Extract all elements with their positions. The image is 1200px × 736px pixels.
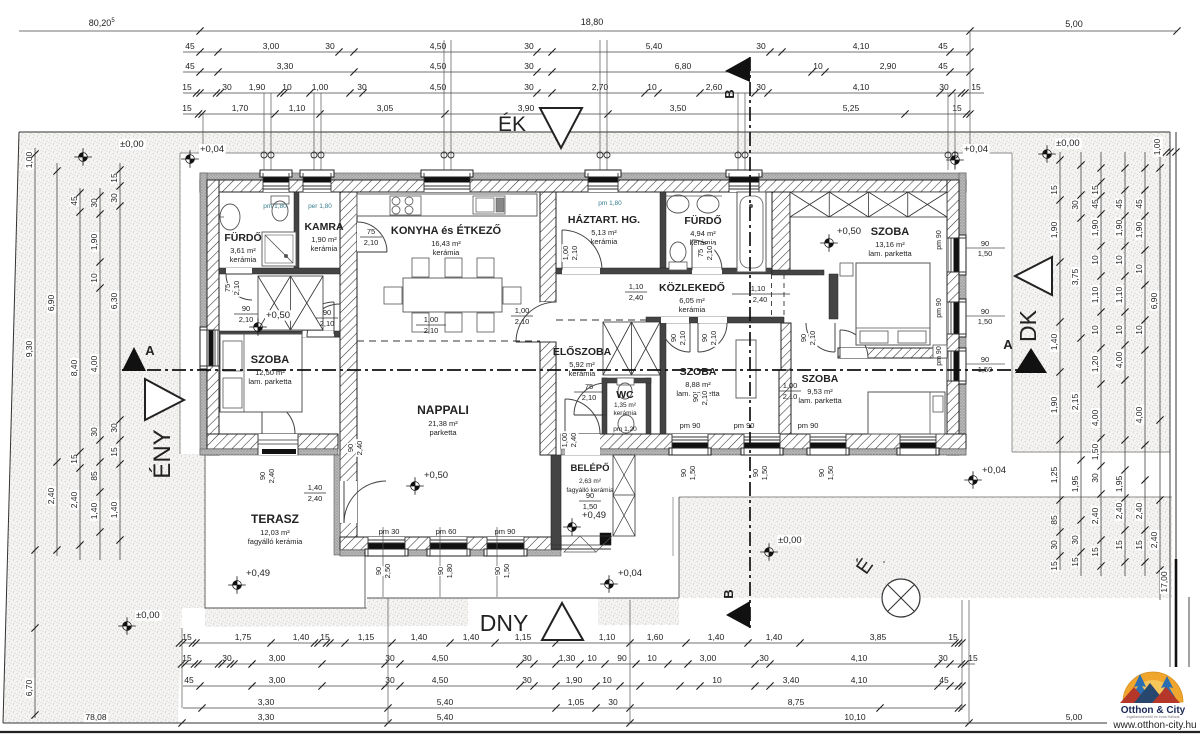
svg-text:1,90: 1,90 [1134, 221, 1144, 238]
right dimension line x=1101 [1100, 152, 1102, 576]
site boundary left (slanted) [3, 132, 19, 723]
svg-text:4,00: 4,00 [89, 355, 99, 372]
svg-text:1,00: 1,00 [24, 151, 34, 168]
svg-text:3,61 m²: 3,61 m² [230, 246, 256, 255]
svg-text:3,30: 3,30 [277, 61, 294, 71]
svg-text:pm 90: pm 90 [734, 421, 755, 430]
stove [390, 196, 421, 215]
svg-text:2,40: 2,40 [1134, 502, 1144, 519]
svg-text:+0,50: +0,50 [424, 470, 448, 481]
svg-text:1,90: 1,90 [1049, 221, 1059, 238]
svg-text:8,75: 8,75 [788, 697, 805, 707]
svg-text:1,00: 1,00 [783, 381, 798, 390]
paved approach area [367, 497, 679, 598]
svg-text:45: 45 [1114, 199, 1124, 209]
svg-text:2,10: 2,10 [364, 238, 379, 247]
partition szoba2 west [660, 322, 666, 434]
svg-text:lam. parketta: lam. parketta [868, 249, 912, 258]
door szoba4 [840, 348, 868, 358]
szoba1 bed [220, 334, 302, 412]
svg-text:kerámia: kerámia [591, 237, 619, 246]
section marker B top [725, 57, 750, 82]
svg-text:3,05: 3,05 [377, 103, 394, 113]
partition háztart east [660, 192, 666, 268]
outer wall south-west segment: insulation [200, 449, 338, 455]
svg-text:1,50: 1,50 [978, 365, 993, 374]
svg-text:3,40: 3,40 [783, 675, 800, 685]
svg-text:30: 30 [524, 61, 534, 71]
svg-text:KAMRA: KAMRA [304, 221, 343, 233]
fürdő2 basins [667, 195, 689, 213]
svg-text:10,10: 10,10 [844, 712, 866, 722]
svg-text:6,90: 6,90 [1149, 292, 1159, 309]
svg-text:1,20: 1,20 [1090, 355, 1100, 372]
right dimension line x=1145 [1144, 152, 1146, 576]
door wc [574, 383, 606, 415]
svg-text:1,40: 1,40 [463, 632, 480, 642]
svg-text:75: 75 [223, 284, 232, 292]
svg-text:±0,00: ±0,00 [136, 610, 160, 621]
svg-text:10: 10 [602, 675, 612, 685]
wc toilet [617, 378, 634, 385]
ground texture bottom strip [205, 598, 679, 627]
svg-text:30: 30 [325, 41, 335, 51]
ground texture lower right field [679, 497, 1172, 598]
svg-text:85: 85 [1049, 515, 1059, 525]
svg-text:kerámia: kerámia [613, 410, 637, 417]
top dimension chain row y=72 [183, 71, 970, 73]
outer wall nappali-south: insulation [340, 550, 561, 556]
house interior white underlay [200, 173, 966, 555]
page bottom edge [0, 731, 1200, 733]
ground texture left column [3, 132, 205, 723]
outer wall top: masonry [200, 180, 966, 192]
svg-text:1,00: 1,00 [515, 306, 530, 315]
bearing wall szoba2/szoba3 [779, 370, 791, 434]
window right wall 3 [947, 351, 966, 381]
window nappali south 2 [430, 537, 467, 556]
svg-text:1,00: 1,00 [424, 315, 439, 324]
bearing wall kitchen-west / nappali-west [340, 192, 357, 555]
svg-text:2,60: 2,60 [706, 82, 723, 92]
svg-text:KÖZLEKEDŐ: KÖZLEKEDŐ [659, 281, 725, 294]
svg-text:13,16 m²: 13,16 m² [875, 240, 905, 249]
svg-text:3,90: 3,90 [518, 103, 535, 113]
wc basin [618, 415, 634, 433]
fürdő1 basin [220, 204, 240, 230]
svg-text:90: 90 [346, 444, 355, 452]
svg-text:per 1,80: per 1,80 [308, 203, 332, 210]
szoba4 wardrobe [790, 192, 947, 217]
logo Otthon & City [1118, 672, 1188, 719]
belépő ramp marks [564, 536, 596, 552]
svg-text:1,15: 1,15 [358, 632, 375, 642]
dashed corridor pocket lines [771, 274, 773, 317]
section marker A left [122, 347, 146, 371]
partition corridor north [556, 268, 790, 274]
elöszoba wardrobe [603, 322, 660, 375]
svg-text:1,40: 1,40 [766, 632, 783, 642]
partition szoba4 pocket north [772, 270, 824, 275]
svg-text:30: 30 [109, 423, 119, 433]
site boundary right outer [1188, 597, 1190, 667]
svg-text:16,43 m²: 16,43 m² [431, 239, 461, 248]
svg-text:kerámia: kerámia [433, 248, 461, 257]
outer wall south-east segment: masonry [561, 434, 966, 449]
svg-text:30: 30 [89, 198, 99, 208]
top dimension chain row y=114 [183, 113, 970, 115]
svg-text:pm 90: pm 90 [495, 527, 516, 536]
svg-text:4,50: 4,50 [432, 675, 449, 685]
left dimension line x=80 [79, 188, 81, 560]
svg-text:+0,04: +0,04 [618, 568, 642, 579]
section marker A right [1015, 348, 1047, 373]
svg-text:1,80: 1,80 [445, 564, 454, 579]
svg-text:30: 30 [1070, 535, 1080, 545]
svg-text:1,90: 1,90 [566, 675, 583, 685]
svg-text:15: 15 [1049, 561, 1059, 571]
svg-text:90: 90 [493, 567, 502, 575]
svg-text:45: 45 [185, 61, 195, 71]
top dimension chain row y=52 [183, 51, 970, 53]
bottom dimension chain row y=686 [183, 685, 962, 687]
svg-text:15: 15 [1090, 185, 1100, 195]
svg-text:SZOBA: SZOBA [871, 226, 910, 238]
svg-text:NAPPALI: NAPPALI [417, 403, 469, 417]
bearing wall corridor east [829, 274, 838, 319]
svg-text:1,50: 1,50 [760, 466, 769, 481]
svg-text:15: 15 [1134, 540, 1144, 550]
svg-text:3,50: 3,50 [670, 103, 687, 113]
svg-text:4,10: 4,10 [853, 82, 870, 92]
svg-text:1,10: 1,10 [289, 103, 306, 113]
window szoba3 south 2 [810, 434, 846, 455]
svg-text:10: 10 [1114, 325, 1124, 335]
fürdő1 shower [262, 232, 296, 266]
svg-text:10: 10 [712, 675, 722, 685]
svg-text:15: 15 [182, 82, 192, 92]
svg-text:pm 30: pm 30 [379, 527, 400, 536]
witness lines bottom [181, 628, 183, 708]
svg-text:Ingatlanközvetítő és Iroda Hál: Ingatlanközvetítő és Iroda Hálózat [1127, 715, 1180, 719]
svg-text:+0,50: +0,50 [266, 310, 290, 321]
svg-text:6,30: 6,30 [109, 292, 119, 309]
svg-text:15: 15 [971, 82, 981, 92]
svg-text:pm 1,80: pm 1,80 [263, 203, 287, 210]
svg-text:HÁZTART. HG.: HÁZTART. HG. [568, 213, 640, 226]
window top wall (kamra) [303, 173, 331, 192]
svg-text:1,40: 1,40 [293, 632, 310, 642]
door szoba3 [806, 323, 835, 352]
door konyha->közlekedő [540, 302, 556, 342]
svg-text:2,15: 2,15 [1070, 393, 1080, 410]
svg-text:1,50: 1,50 [502, 564, 511, 579]
door kamra->konyha [357, 222, 358, 252]
left dimension line x=100 [99, 188, 101, 560]
svg-text:B: B [721, 589, 736, 598]
svg-text:2,40: 2,40 [753, 295, 768, 304]
partition wc west [602, 378, 607, 434]
svg-text:15: 15 [1114, 540, 1124, 550]
belépő corner column [600, 533, 611, 545]
svg-text:lam. parketta: lam. parketta [248, 377, 292, 386]
svg-text:80,20: 80,20 [89, 18, 112, 28]
svg-text:4,50: 4,50 [432, 653, 449, 663]
svg-text:4,00: 4,00 [1090, 409, 1100, 426]
svg-text:pm 60: pm 60 [436, 527, 457, 536]
svg-text:pm 1,20: pm 1,20 [613, 426, 637, 433]
ground texture right column [1012, 153, 1170, 452]
svg-text:kerámia: kerámia [679, 305, 707, 314]
svg-text:5,40: 5,40 [437, 697, 454, 707]
svg-text:ELŐSZOBA: ELŐSZOBA [553, 345, 612, 358]
svg-text:3,30: 3,30 [258, 712, 275, 722]
bearing wall szoba4 west [772, 192, 790, 274]
window szoba3 south 1 [744, 434, 780, 455]
svg-text:1,05: 1,05 [568, 697, 585, 707]
bearing wall kitchen-east [540, 192, 556, 302]
svg-text:5,92 m²: 5,92 m² [569, 360, 595, 369]
partition fürdő east [294, 192, 299, 270]
17,00 label right edge [1159, 570, 1170, 594]
svg-text:10: 10 [1114, 255, 1124, 265]
svg-text:3,85: 3,85 [870, 632, 887, 642]
svg-text:±0,00: ±0,00 [778, 535, 802, 546]
svg-text:1,90 m²: 1,90 m² [311, 235, 337, 244]
svg-text:1,00: 1,00 [312, 82, 329, 92]
svg-text:DNY: DNY [480, 610, 529, 636]
bearing wall szoba4 south [838, 348, 947, 358]
svg-text:10: 10 [1134, 325, 1144, 335]
svg-text:10: 10 [89, 273, 99, 283]
belépő entry door [565, 434, 600, 455]
svg-text:SZOBA: SZOBA [251, 354, 290, 366]
svg-text:1,00: 1,00 [561, 246, 570, 261]
svg-text:10: 10 [647, 82, 657, 92]
svg-text:30: 30 [524, 82, 534, 92]
site boundary right thick [1175, 132, 1177, 667]
svg-text:+0,50: +0,50 [837, 226, 861, 237]
svg-text:2,40: 2,40 [355, 441, 364, 456]
svg-text:1,90: 1,90 [1049, 396, 1059, 413]
svg-text:1,40: 1,40 [411, 632, 428, 642]
svg-text:15: 15 [182, 632, 192, 642]
left dimension line x=35 [34, 148, 36, 718]
level markers [181, 150, 199, 168]
fürdő2 toilet [669, 262, 687, 270]
svg-text:30: 30 [1049, 540, 1059, 550]
outer wall south-west segment: masonry [207, 434, 338, 449]
svg-text:15: 15 [968, 653, 978, 663]
outer wall nappali-south: masonry [340, 537, 561, 550]
top dimension chain row 80,20 [19, 30, 1177, 32]
hall wardrobe [258, 276, 323, 330]
right dimension line x=1160 [1159, 152, 1161, 600]
svg-text:90: 90 [242, 304, 250, 313]
svg-text:10: 10 [1134, 264, 1144, 274]
svg-text:3,00: 3,00 [269, 675, 286, 685]
door háztart [562, 268, 600, 274]
svg-text:5,00: 5,00 [1066, 712, 1083, 722]
svg-text:3,00: 3,00 [269, 653, 286, 663]
wall piece between szoba doors [781, 323, 791, 370]
svg-text:1,95: 1,95 [1114, 475, 1124, 492]
site boundary top inner [19, 131, 1170, 133]
belépő west wall [551, 455, 561, 549]
szoba2 cabinet [736, 340, 756, 398]
ground texture top band [180, 132, 1170, 153]
svg-text:±0,00: ±0,00 [120, 139, 144, 150]
outer wall left: insulation [200, 173, 207, 455]
svg-text:15: 15 [109, 447, 119, 457]
svg-text:15: 15 [1049, 185, 1059, 195]
svg-text:1,50: 1,50 [583, 502, 598, 511]
svg-text:90: 90 [374, 567, 383, 575]
svg-text:pm 90: pm 90 [936, 298, 943, 318]
svg-text:30: 30 [222, 82, 232, 92]
svg-text:±0,00: ±0,00 [1056, 138, 1080, 149]
svg-text:90: 90 [751, 469, 760, 477]
svg-text:+0,04: +0,04 [964, 144, 988, 155]
svg-text:1,90: 1,90 [249, 82, 266, 92]
szoba4 nightstand [840, 263, 853, 276]
svg-text:1,40: 1,40 [109, 501, 119, 518]
outer wall right: insulation [959, 173, 966, 455]
kitchen counter [357, 194, 537, 216]
section line A-A [122, 369, 1047, 371]
svg-text:2,40: 2,40 [46, 487, 56, 504]
svg-text:10: 10 [587, 653, 597, 663]
svg-text:BELÉPŐ: BELÉPŐ [570, 462, 609, 474]
svg-text:9,53 m²: 9,53 m² [807, 387, 833, 396]
svg-text:2,40: 2,40 [308, 494, 323, 503]
svg-text:pm 90: pm 90 [936, 230, 943, 250]
left dimension line x=57 [56, 163, 58, 556]
bottom dimension chain row y=643 [183, 642, 962, 644]
svg-text:3,75: 3,75 [1070, 268, 1080, 285]
svg-text:1,10: 1,10 [629, 282, 644, 291]
svg-text:1,95: 1,95 [1070, 475, 1080, 492]
svg-text:2,10: 2,10 [705, 246, 714, 261]
window right wall 1 [947, 238, 966, 272]
svg-text:90: 90 [799, 334, 808, 342]
svg-text:1,50: 1,50 [978, 249, 993, 258]
svg-text:B: B [722, 89, 737, 98]
svg-text:6,90: 6,90 [46, 294, 56, 311]
svg-text:9,30: 9,30 [24, 340, 34, 357]
svg-text:1,90: 1,90 [1090, 219, 1100, 236]
dining table [403, 278, 502, 312]
svg-text:17,00: 17,00 [1159, 571, 1169, 593]
svg-text:1,35 m²: 1,35 m² [614, 402, 637, 409]
door hall->nappali [307, 304, 340, 337]
szoba1 terasz door/window [258, 434, 298, 455]
svg-text:1,30: 1,30 [559, 653, 576, 663]
terasz outline [205, 455, 365, 608]
site line right 17.00 [1169, 132, 1171, 667]
svg-text:1,10: 1,10 [751, 284, 766, 293]
svg-text:30: 30 [756, 41, 766, 51]
door fürdő2 [692, 268, 722, 274]
svg-text:FÜRDŐ: FÜRDŐ [224, 231, 261, 244]
belépő steps [551, 548, 611, 550]
svg-text:90: 90 [981, 307, 989, 316]
svg-text:45: 45 [184, 675, 194, 685]
svg-text:30: 30 [608, 697, 618, 707]
svg-text:2,10: 2,10 [678, 331, 687, 346]
right dimension line x=1081 [1080, 152, 1082, 576]
stipple boundary around house buffer [180, 152, 1012, 154]
svg-text:1,50: 1,50 [826, 466, 835, 481]
svg-text:1,10: 1,10 [1090, 286, 1100, 303]
svg-text:3,00: 3,00 [700, 653, 717, 663]
outer wall top: insulation [200, 173, 966, 180]
svg-text:4,94 m²: 4,94 m² [690, 229, 716, 238]
svg-text:45: 45 [938, 61, 948, 71]
right dimension line x=1060 [1059, 152, 1061, 570]
window top wall (konyha) [424, 173, 470, 192]
svg-text:1,40: 1,40 [89, 502, 99, 519]
svg-text:30: 30 [524, 41, 534, 51]
svg-text:4,00: 4,00 [1114, 351, 1124, 368]
svg-text:15: 15 [182, 103, 192, 113]
svg-text:2,10: 2,10 [808, 331, 817, 346]
svg-text:45: 45 [1134, 199, 1144, 209]
svg-text:90: 90 [981, 355, 989, 364]
svg-text:75: 75 [696, 249, 705, 257]
svg-text:kerámia: kerámia [569, 369, 597, 378]
svg-text:2,40: 2,40 [629, 293, 644, 302]
svg-text:1,75: 1,75 [235, 632, 252, 642]
nappali west insulation strip [334, 455, 340, 555]
svg-text:KONYHA és ÉTKEZŐ: KONYHA és ÉTKEZŐ [391, 224, 502, 237]
svg-text:2,40: 2,40 [69, 491, 79, 508]
window szoba3 south 3 [900, 434, 936, 455]
window right wall 2 [947, 302, 966, 334]
outer wall south-east segment: insulation [561, 449, 966, 455]
svg-text:10: 10 [1090, 325, 1100, 335]
svg-text:2,40: 2,40 [1114, 502, 1124, 519]
svg-text:lam. parketta: lam. parketta [798, 396, 842, 405]
site boundary bottom [3, 722, 1107, 724]
belépő east braced wall [613, 455, 635, 536]
svg-text:3,30: 3,30 [258, 697, 275, 707]
svg-text:2,10: 2,10 [582, 393, 597, 402]
svg-text:1,90: 1,90 [1114, 219, 1124, 236]
svg-text:10: 10 [1090, 255, 1100, 265]
svg-text:kerámia: kerámia [230, 255, 258, 264]
svg-text:90: 90 [669, 334, 678, 342]
door fürdő1 [226, 268, 252, 274]
svg-text:75: 75 [585, 382, 593, 391]
svg-text:30: 30 [522, 675, 532, 685]
svg-text:SZOBA: SZOBA [680, 366, 717, 378]
svg-text:1,40: 1,40 [308, 483, 323, 492]
svg-text:90: 90 [436, 567, 445, 575]
svg-text:6,05 m²: 6,05 m² [679, 296, 705, 305]
svg-text:www.otthon-city.hu: www.otthon-city.hu [1112, 720, 1196, 731]
window nappali south 1 [368, 537, 405, 556]
fürdő2 bathtub [737, 192, 766, 272]
section marker B bottom [726, 601, 750, 628]
svg-text:2,50: 2,50 [383, 564, 392, 579]
svg-text:1,10: 1,10 [599, 632, 616, 642]
svg-text:15: 15 [109, 173, 119, 183]
svg-text:1,50: 1,50 [688, 466, 697, 481]
svg-text:90: 90 [981, 239, 989, 248]
svg-text:15: 15 [952, 103, 962, 113]
door szoba2 [698, 317, 727, 323]
